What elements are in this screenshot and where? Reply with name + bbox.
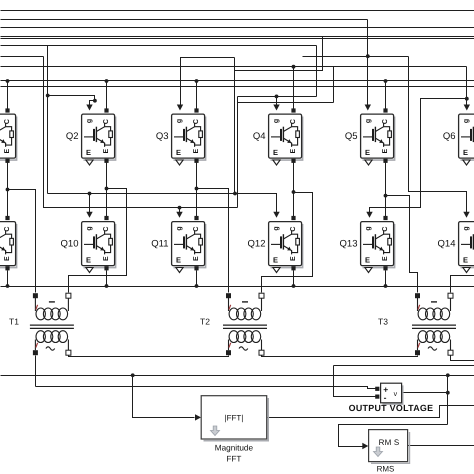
FFT block U1 (Magnitude FFT): [201, 396, 268, 464]
svg-text:OUTPUT VOLTAGE: OUTPUT VOLTAGE: [349, 403, 434, 413]
wire midpoint to T1 primary right: [69, 189, 127, 293]
pin E-out of Q3: [194, 159, 198, 163]
transformer T3: [378, 293, 456, 355]
wire gate line to Q2 and staircase: [1, 45, 317, 47]
node junction on emitter bus: [195, 284, 199, 288]
pin E output arrow of Q3: [176, 160, 183, 165]
wire midpoint to T2 primary left: [197, 189, 229, 293]
wire gate-bus line 1: [1, 10, 474, 12]
wire vertical gate feed Q2/Q10: [47, 46, 49, 194]
pin E output arrow of Q10: [86, 268, 93, 273]
wire midpoint to T1 primary left: [8, 190, 36, 293]
pin - of voltmeter: [375, 395, 379, 399]
wire Q1 collector drop: [7, 81, 9, 111]
wire from right edge to T3 primary right: [451, 276, 474, 293]
pin E output arrow of Q11: [176, 268, 183, 273]
wire staircase riser right: [237, 97, 239, 208]
node junction FFT tap: [131, 373, 135, 377]
node junction Q11 gate tap: [178, 206, 182, 210]
node midpoint junction: [105, 187, 109, 191]
transistor Q12 (IGBT): [248, 222, 303, 268]
pin E output arrow of Q6: [463, 160, 470, 165]
wire emitter drop to bus: [293, 271, 295, 287]
wire staircase riser left: [234, 58, 236, 194]
pin E-out of Q10: [104, 266, 108, 270]
wire Q4 gate feeder: [238, 96, 317, 98]
transistor Q6 (IGBT): [443, 114, 474, 160]
wire Q4 gate drop: [276, 97, 278, 105]
wire Q2 gate jog: [48, 96, 95, 105]
pin E output arrow of Q14: [463, 268, 470, 273]
svg-text:Magnitude: Magnitude: [215, 444, 254, 453]
node junction on Q6 gate drop: [465, 97, 469, 101]
wire RMS output to right edge: [408, 445, 474, 447]
node junction Q1 collector tap: [6, 79, 10, 83]
wire arrowhead into Q2 gate: [86, 105, 92, 111]
wire arrowhead into Q3 gate: [177, 105, 183, 111]
wire vertical+horizontal gate feed Q11: [44, 57, 238, 208]
wire H-bridge midpoint leg: [385, 163, 387, 217]
wire to voltmeter plus input: [36, 387, 376, 389]
wire gate line (staircase to Q10/Q12): [1, 36, 474, 38]
pin C of Q12: [291, 216, 295, 220]
pin E-out of Q4: [291, 159, 295, 163]
wire loopback to RMS input: [339, 425, 448, 447]
node junction on emitter bus: [6, 284, 10, 288]
transistor Q5 (IGBT): [345, 114, 395, 160]
pin C of Q11: [194, 216, 198, 220]
svg-text:Q10: Q10: [61, 238, 79, 249]
node junction Q10 gate tap: [88, 192, 92, 196]
wire to voltmeter minus input: [334, 366, 376, 397]
svg-text:Q12: Q12: [248, 238, 266, 249]
svg-text:Q3: Q3: [156, 131, 169, 142]
pin C of Q9: [5, 216, 9, 220]
wire midpoint to T3 primary left: [386, 196, 418, 293]
wire H-bridge midpoint leg: [293, 163, 295, 217]
wire Q5 gate drop: [367, 20, 369, 105]
node midpoint junction: [6, 188, 10, 192]
wire staircase from line y36: [235, 37, 323, 71]
transformer T2: [200, 293, 267, 355]
node junction Q2 collector tap: [105, 79, 109, 83]
pin C of Q5: [383, 108, 387, 112]
svg-text:v: v: [394, 391, 398, 398]
pin C of Q2: [104, 108, 108, 112]
node junction Q4 collector tap: [292, 65, 296, 69]
pin + of voltmeter: [375, 387, 379, 391]
node junction Q5 collector tap: [384, 79, 388, 83]
svg-text:T2: T2: [200, 317, 210, 327]
wire gate-bus line 3: [1, 27, 474, 29]
pin E output arrow of Q12: [273, 268, 280, 273]
wire Q10 gate drop: [89, 194, 91, 213]
wire arrowhead into Q11 gate: [176, 212, 182, 218]
pin E-out of Q2: [104, 159, 108, 163]
svg-text:Q2: Q2: [66, 131, 79, 142]
pin C of Q1: [5, 108, 9, 112]
wire Q5 collector drop: [385, 81, 387, 111]
node junction on emitter bus: [292, 284, 296, 288]
wire gate feed line to Q10 and Q12: [48, 194, 277, 213]
wire Q6 gate drop: [466, 67, 468, 107]
wire feeder segment y102: [238, 102, 334, 104]
pin E output arrow of Q13: [365, 268, 372, 273]
node junction staircase riser: [233, 192, 237, 196]
wire load return bus: [1, 375, 474, 377]
wire H-bridge midpoint leg: [106, 163, 108, 217]
transistor Q14 (IGBT): [438, 222, 474, 268]
RMS block U3: [369, 430, 410, 474]
svg-text:RM S: RM S: [379, 438, 400, 447]
pin E-out of Q5: [383, 159, 387, 163]
wire T3 secondary to right edge: [451, 356, 474, 361]
svg-text:Q14: Q14: [438, 238, 456, 249]
wire T1 secondary to T2 secondary: [69, 356, 229, 357]
wire staircase to Q3 gate: [181, 58, 235, 105]
wire arrowhead into Q6 gate: [464, 105, 470, 111]
pin C of Q4: [291, 108, 295, 112]
wire voltmeter output: [402, 392, 448, 394]
wire staircase drop from line y47: [316, 46, 318, 97]
wire staircase to Q14 gate: [409, 57, 467, 213]
node junction on emitter bus: [105, 284, 109, 288]
svg-text:RMS: RMS: [377, 465, 395, 474]
wire Q4 collector drop: [293, 67, 295, 111]
wire to FFT input: [133, 376, 195, 418]
node junction on load return bus: [446, 373, 450, 377]
transistor Q11 (IGBT): [151, 222, 205, 268]
wire Q3 collector drop: [196, 81, 198, 111]
wire gate line left stub: [1, 56, 44, 58]
pin E output arrow of Q5: [365, 160, 372, 165]
svg-text:Q4: Q4: [253, 131, 266, 142]
svg-text:T3: T3: [378, 317, 388, 327]
voltmeter U2 (OUTPUT VOLTAGE voltage measurement): [381, 383, 403, 404]
wire sense line upper: [334, 365, 474, 367]
wire emitter drop to bus: [106, 271, 108, 287]
wire arrowhead into RMS: [362, 443, 368, 449]
svg-text:T1: T1: [9, 317, 19, 327]
wire arrowhead into Q5 gate: [365, 105, 371, 111]
wire midpoint to T2 primary right: [262, 193, 313, 293]
wire gate line to Q5: [1, 19, 368, 21]
wire emitter drop to bus: [196, 271, 198, 287]
node junction Q3 collector tap: [195, 79, 199, 83]
transistor Q2 (IGBT): [66, 114, 116, 160]
svg-text:Q11: Q11: [151, 238, 168, 249]
transistor Q4 (IGBT): [253, 114, 303, 160]
wire arrowhead into Q12 gate: [273, 212, 279, 218]
wire arrowhead into Q4 gate: [273, 105, 279, 111]
transistor Q13 (IGBT): [340, 222, 395, 268]
svg-text:Q13: Q13: [340, 238, 358, 249]
transistor Q10 (IGBT): [61, 222, 116, 268]
svg-text:FFT: FFT: [226, 455, 241, 464]
wire arrowhead into Q13 gate: [366, 212, 372, 218]
pin E output arrow of Q4: [273, 160, 280, 165]
node junction Q2 gate jog: [93, 99, 97, 103]
transistor Q3 (IGBT): [156, 114, 206, 160]
transformer T1: [9, 293, 74, 355]
transistor Q1 (IGBT): [0, 114, 17, 160]
wire staircase drop from line y67: [333, 67, 335, 103]
node junction on Q5 gate drop: [366, 54, 370, 58]
svg-text:-: -: [384, 392, 387, 402]
wire emitter common bus: [1, 286, 474, 288]
node junction Q2 gate tap: [46, 94, 50, 98]
wire H-bridge midpoint leg: [196, 163, 198, 217]
wire voltmeter output vertical: [447, 376, 449, 425]
wire T1 secondary left down: [35, 356, 37, 387]
wire Q11 gate drop: [179, 208, 181, 213]
wire T2 secondary to T3 secondary: [262, 356, 418, 357]
pin E-out of Q1: [5, 159, 9, 163]
transistor Q9 (IGBT): [0, 222, 17, 268]
wire arrowhead into Q14 gate: [463, 212, 469, 218]
svg-text:Q5: Q5: [345, 131, 358, 142]
pin E-out of Q13: [383, 266, 387, 270]
pin E-out of Q12: [291, 266, 295, 270]
svg-text:Q6: Q6: [443, 131, 456, 142]
wire emitter drop to bus: [7, 271, 9, 287]
wire gate-bus line 10: [1, 86, 474, 88]
wire emitter drop to bus: [385, 271, 387, 287]
pin C of Q10: [104, 216, 108, 220]
wire gate line to Q14: [303, 56, 409, 58]
pin C of Q3: [194, 108, 198, 112]
node midpoint junction: [195, 187, 199, 191]
pin E output arrow of Q2: [86, 160, 93, 165]
node midpoint junction: [292, 190, 296, 194]
wire Q2 collector drop: [106, 81, 108, 111]
svg-text:|FFT|: |FFT|: [224, 413, 243, 422]
node junction voltmeter output: [446, 391, 450, 395]
node junction Q4 gate tap: [275, 95, 279, 99]
wire collector DC bus: [1, 80, 474, 82]
wire gate-bus line 5: [1, 38, 474, 40]
pin C of Q13: [383, 216, 387, 220]
node junction on emitter bus: [384, 284, 388, 288]
wire gate line to Q6: [1, 66, 467, 68]
wire arrowhead into FFT: [195, 414, 201, 420]
wire H-bridge midpoint leg: [7, 163, 9, 217]
wire FFT output to right edge: [267, 406, 474, 418]
wire branch Q6 gate to Q13 gate: [370, 99, 467, 213]
pin E-out of Q9: [5, 266, 9, 270]
wire arrowhead into Q10 gate: [86, 212, 92, 218]
pin E-out of Q11: [194, 266, 198, 270]
node midpoint junction: [384, 194, 388, 198]
